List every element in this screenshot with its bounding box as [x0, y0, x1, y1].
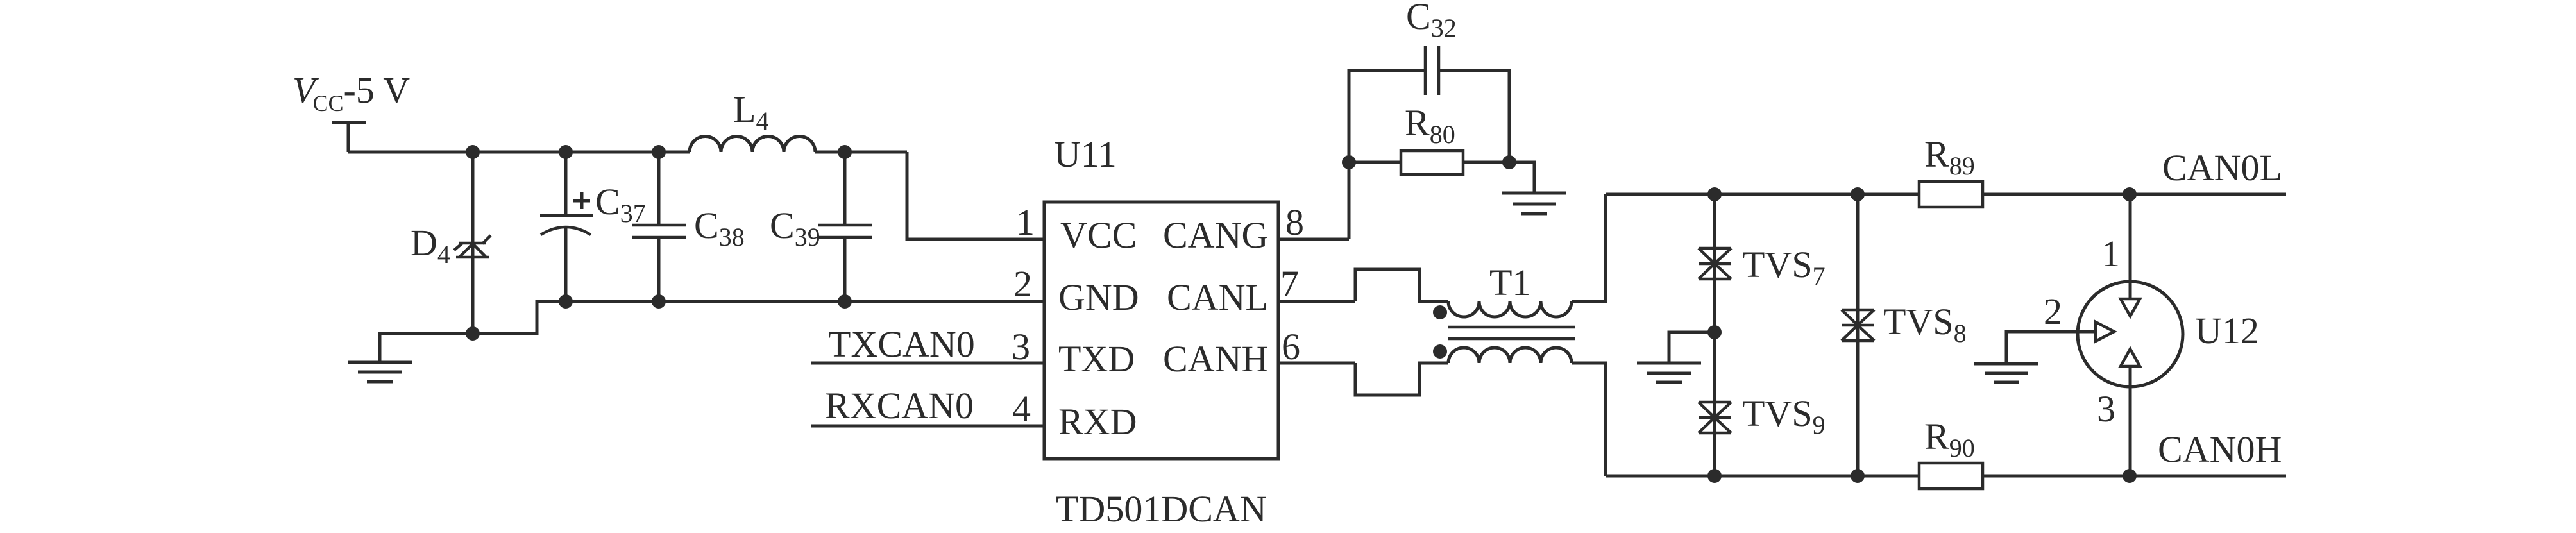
wire R80 row — [1349, 162, 1534, 193]
plus sign C37 — [573, 192, 590, 209]
wire pin 7 to choke — [1278, 300, 1355, 303]
wire TVS7 TVS9 branch — [1713, 194, 1716, 476]
svg-text:2: 2 — [1013, 263, 1032, 305]
transformer T1 secondary winding — [1448, 348, 1572, 363]
wire choke bottom bump — [1355, 363, 1448, 395]
svg-text:C37: C37 — [595, 181, 646, 228]
wire TVS8 branch — [1856, 194, 1860, 476]
wire C32 left branch — [1349, 71, 1425, 239]
svg-text:RXCAN0: RXCAN0 — [825, 385, 974, 427]
svg-text:VCC-5 V: VCC-5 V — [292, 69, 410, 116]
node T1 secondary phase dot — [1433, 344, 1447, 359]
node top rail TVS8 — [1851, 187, 1865, 201]
node gnd rail C38 — [652, 294, 666, 309]
node R80 left — [1342, 155, 1356, 169]
svg-text:4: 4 — [1012, 388, 1031, 430]
U12 pin 1 triangle — [2121, 299, 2140, 316]
wire U12 pin 3 — [2129, 366, 2132, 476]
wire top rail left — [348, 151, 690, 154]
svg-text:2: 2 — [2044, 291, 2062, 332]
wire pin 6 to choke — [1278, 362, 1355, 365]
wire secondary to bottom rail — [1572, 363, 1606, 476]
node TVS mid — [1707, 325, 1722, 339]
node top rail C37 — [559, 145, 573, 159]
wire ground rail — [380, 301, 1044, 362]
svg-text:C32: C32 — [1406, 0, 1457, 42]
node T1 primary phase dot — [1433, 305, 1447, 319]
svg-text:U11: U11 — [1054, 133, 1117, 175]
node bottom rail TVS8 — [1851, 469, 1865, 483]
svg-text:CAN0H: CAN0H — [2158, 428, 2282, 470]
svg-text:C39: C39 — [770, 205, 820, 251]
wire U12 pin 1 — [2129, 194, 2132, 299]
U12 pin 2 triangle — [2096, 322, 2114, 341]
connector U12 circle — [2078, 282, 2183, 387]
svg-text:U12: U12 — [2195, 310, 2259, 351]
ground — [348, 362, 412, 382]
svg-text:R80: R80 — [1405, 102, 1455, 149]
wire top rail right of L4 — [815, 151, 907, 154]
svg-text:CAN0L: CAN0L — [2162, 147, 2282, 189]
ground — [1637, 363, 1701, 382]
resistor R90 — [1919, 463, 1983, 489]
ground — [1502, 193, 1566, 214]
TVS9 — [1699, 402, 1731, 433]
TVS7 — [1699, 248, 1731, 279]
node gnd rail C37 — [559, 294, 573, 309]
wire C32 right branch — [1439, 71, 1509, 162]
svg-text:TVS7: TVS7 — [1742, 244, 1826, 291]
U12 pin 3 triangle — [2121, 349, 2140, 366]
transformer T1 core — [1448, 327, 1575, 339]
wire U12 pin 2 — [2006, 332, 2096, 362]
svg-text:TXD: TXD — [1058, 338, 1135, 380]
capacitor C32 — [1425, 46, 1439, 95]
resistor R80 — [1401, 151, 1463, 174]
svg-text:3: 3 — [1012, 326, 1030, 368]
node top rail TVS7 — [1707, 187, 1722, 201]
svg-text:7: 7 — [1280, 263, 1299, 305]
node D4 bottom — [466, 326, 480, 341]
wire pin 8 — [1278, 238, 1349, 241]
svg-text:1: 1 — [1016, 201, 1035, 243]
svg-text:TD501DCAN: TD501DCAN — [1056, 488, 1267, 530]
node bottom rail TVS9 — [1707, 469, 1722, 483]
IC U11 box — [1044, 202, 1278, 459]
ground — [1974, 364, 2038, 382]
TVS8 — [1842, 310, 1874, 341]
svg-text:RXD: RXD — [1058, 401, 1137, 443]
wire choke top bump — [1355, 269, 1448, 301]
svg-text:1: 1 — [2101, 233, 2120, 275]
capacitor C37 — [564, 152, 568, 301]
wire primary to top rail — [1572, 194, 1606, 301]
svg-text:6: 6 — [1282, 326, 1300, 368]
svg-text:D4: D4 — [411, 222, 450, 269]
wire to pin 1 — [907, 152, 1044, 239]
svg-text:VCC: VCC — [1060, 214, 1137, 256]
node top rail D4 — [466, 145, 480, 159]
svg-text:R90: R90 — [1924, 416, 1975, 462]
power symbol VCC — [332, 123, 366, 152]
wire TXCAN0 — [811, 362, 1044, 365]
node gnd rail C39 — [838, 294, 852, 309]
svg-text:C38: C38 — [694, 205, 745, 251]
svg-text:TVS8: TVS8 — [1883, 301, 1967, 348]
svg-text:T1: T1 — [1489, 262, 1530, 303]
capacitor C38 — [657, 152, 661, 301]
zener diode D4 — [471, 152, 475, 334]
svg-text:CANL: CANL — [1167, 276, 1268, 318]
node CAN0H — [2123, 469, 2137, 483]
svg-text:3: 3 — [2097, 388, 2115, 430]
inductor L4 — [690, 137, 815, 153]
wire top rail CAN0L — [1606, 193, 2286, 196]
resistor R89 — [1919, 182, 1983, 207]
wire bottom rail CAN0H — [1606, 475, 2286, 478]
svg-text:TXCAN0: TXCAN0 — [828, 323, 975, 365]
node R80 right — [1502, 155, 1516, 169]
wire mid ground stub — [1669, 332, 1715, 363]
svg-text:R89: R89 — [1924, 133, 1975, 180]
svg-text:CANH: CANH — [1163, 338, 1268, 380]
node CAN0L — [2123, 187, 2137, 201]
svg-text:CANG: CANG — [1163, 214, 1268, 256]
svg-text:GND: GND — [1058, 276, 1139, 318]
node top rail C38 — [652, 145, 666, 159]
transformer T1 primary winding — [1448, 301, 1572, 317]
svg-text:TVS9: TVS9 — [1742, 393, 1826, 439]
svg-text:8: 8 — [1285, 201, 1304, 243]
node top rail C39 — [838, 145, 852, 159]
svg-text:L4: L4 — [733, 89, 768, 135]
wire RXCAN0 — [811, 425, 1044, 428]
capacitor C39 — [843, 152, 847, 301]
